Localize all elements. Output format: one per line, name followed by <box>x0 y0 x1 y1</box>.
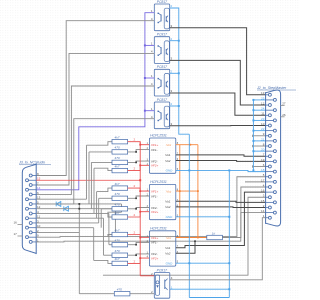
wire g2r2 row <box>99 197 112 199</box>
J3 pin 4 <box>29 212 32 215</box>
wire opto pin2 stub <box>170 105 179 107</box>
resistor 470 <box>112 196 128 200</box>
wire g1r2 row <box>89 151 112 153</box>
J2 pin 15 <box>273 201 276 204</box>
svg-text:PC817: PC817 <box>157 33 167 37</box>
diode D2 <box>64 206 69 211</box>
wire red r4 to VF2+ chip 1 <box>128 165 150 170</box>
svg-text:GND: GND <box>166 169 174 173</box>
J2 pin 25 <box>273 98 276 101</box>
wire blue J2 rail <box>252 100 254 170</box>
resistor 4k7 <box>112 168 128 172</box>
wire J2 short stub <box>253 145 266 147</box>
svg-text:HCPL2531: HCPL2531 <box>150 226 167 230</box>
svg-text:21: 21 <box>261 137 265 141</box>
svg-text:Vcc: Vcc <box>166 143 172 147</box>
junction purple <box>144 110 146 112</box>
wire blue J2 pin row <box>253 150 265 152</box>
J2 pin 22 <box>273 129 276 132</box>
wire blue vertical x189 <box>188 134 190 297</box>
svg-text:VF1+: VF1+ <box>151 143 159 147</box>
J3 pin 2 <box>29 231 32 234</box>
wire OK2 cathode to J3 pin <box>36 53 154 185</box>
svg-text:16: 16 <box>13 220 17 224</box>
junction blue <box>178 105 180 107</box>
svg-text:Vo2: Vo2 <box>165 159 171 163</box>
J2 pin 19 <box>273 160 276 163</box>
svg-text:4k7: 4k7 <box>115 257 120 261</box>
J2 pin 7 <box>268 155 271 158</box>
wire riser up <box>100 209 102 228</box>
wire riser down <box>103 218 105 255</box>
wire J2 short stub <box>253 166 266 168</box>
wire blue GND row chip1 to J2 pin18 <box>176 170 266 171</box>
optocoupler OK2 PC817 <box>154 37 169 64</box>
wire blue J2 pin row <box>253 99 265 101</box>
wire J2 pin1 to OK5 collector <box>170 218 266 280</box>
svg-text:Vo1: Vo1 <box>165 246 171 250</box>
svg-text:18: 18 <box>261 168 265 172</box>
wire OK1 emitter to J2 pin <box>170 28 266 95</box>
svg-text:14: 14 <box>37 186 41 190</box>
svg-text:12: 12 <box>261 101 265 105</box>
J3 pin 5 <box>29 203 32 206</box>
wire J3 pin1 long row to J2 pin14 <box>36 213 265 242</box>
J3 pin 7 <box>29 184 32 187</box>
wire blue PC817 emitter <box>170 288 230 290</box>
wire blue GND chip3 <box>176 262 230 264</box>
junction red chip 3 <box>139 237 141 239</box>
wire U2 Vo2 to J2 pin2 <box>176 206 266 209</box>
svg-text:26: 26 <box>282 113 286 117</box>
svg-text:VF1-: VF1- <box>151 194 158 198</box>
svg-text:4k7: 4k7 <box>115 211 120 215</box>
J2 pin 23 <box>273 119 276 122</box>
wire bottom long row to J2 pin3 <box>103 197 266 275</box>
wire U1 Vo2 to J2 pin19 <box>176 160 266 163</box>
svg-text:25: 25 <box>261 96 265 100</box>
wire blue J2 pin row <box>253 130 265 132</box>
wire riser up <box>93 168 95 213</box>
junction purple <box>144 44 146 46</box>
J3 pin 1 <box>29 240 32 243</box>
svg-text:470: 470 <box>115 192 120 196</box>
J2 pin 6 <box>268 165 271 168</box>
J2 pin 9 <box>268 134 271 137</box>
wire blue rail optos pin2 <box>170 8 190 134</box>
svg-text:10: 10 <box>261 122 265 126</box>
wire red vertical rail <box>139 142 141 276</box>
svg-text:17: 17 <box>13 232 17 236</box>
wire J3 pin row 3 <box>36 222 98 224</box>
J2 pin 5 <box>268 175 271 178</box>
wire g2r1 U loop <box>97 188 112 192</box>
wire J3 pin row 10 <box>36 227 93 229</box>
IC U1 HCPL2531 <box>149 138 175 173</box>
svg-text:16: 16 <box>261 189 265 193</box>
svg-text:4k7: 4k7 <box>115 228 120 232</box>
svg-text:4k7: 4k7 <box>115 164 120 168</box>
wire g3r1 U loop <box>108 235 112 237</box>
svg-text:VF1-: VF1- <box>151 241 158 245</box>
svg-text:4k7: 4k7 <box>115 136 120 140</box>
J2 pin 8 <box>268 145 271 148</box>
wire red to bottom PC817 <box>140 275 154 277</box>
svg-text:VF1-: VF1- <box>151 148 158 152</box>
J2 shield pin 27 <box>281 105 285 107</box>
wire J3 pin9 long row to J2 pin5 <box>36 177 265 237</box>
wire orange rail B <box>197 145 199 238</box>
wire resistor P to J2 pin4 <box>222 187 265 238</box>
J2 pin 4 <box>268 186 271 189</box>
svg-text:470: 470 <box>115 156 120 160</box>
svg-text:VF1+: VF1+ <box>151 236 159 240</box>
wire r2 to VF1- chip 3 <box>128 242 150 244</box>
wire orange Vcc chip2 <box>176 190 198 192</box>
wire J3 pin row 12 <box>36 208 115 210</box>
resistor 470 <box>112 243 128 247</box>
junction red chip 1 <box>139 144 141 146</box>
J2 shield pin 26 <box>281 116 285 118</box>
resistor 4k7 <box>112 261 128 265</box>
J2 pin 10 <box>268 124 271 127</box>
svg-text:4k7: 4k7 <box>115 182 120 186</box>
J3 pin 8 <box>29 174 32 177</box>
svg-text:470: 470 <box>115 239 120 243</box>
IC U3 HCPL2531 <box>149 231 175 266</box>
wire OK4 emitter to J2 pin <box>170 125 266 127</box>
J3 pin 14 <box>26 188 29 191</box>
svg-text:470: 470 <box>117 288 122 292</box>
wire OK5 to 470 <box>130 293 154 295</box>
wire red r1 to VF1+ chip 1 <box>128 142 150 145</box>
J3 pin 6 <box>29 193 32 196</box>
wire blue bottom jog <box>189 297 229 299</box>
svg-text:Vo1: Vo1 <box>165 153 171 157</box>
wire purple stub <box>145 110 154 112</box>
junction orange <box>189 144 191 146</box>
wire red J3 pin15 <box>36 179 140 181</box>
svg-text:20: 20 <box>261 148 265 152</box>
wire OK4 cathode to J3 pin <box>36 119 154 204</box>
wire r3 to VF2- chip 1 <box>128 161 150 162</box>
wire OK3 emitter to J2 pin <box>170 93 266 115</box>
J3 pin 11 <box>26 217 29 220</box>
wire g2r4 U loop <box>108 212 122 217</box>
wire purple stub <box>145 44 154 46</box>
wire orange rail A <box>179 145 181 238</box>
J2 pin 18 <box>273 170 276 173</box>
J2 pin 20 <box>273 150 276 153</box>
svg-text:HCPL2531: HCPL2531 <box>150 180 167 184</box>
J2 pin 1 <box>268 216 271 219</box>
J2 pin 3 <box>268 196 271 199</box>
svg-text:470: 470 <box>115 146 120 150</box>
J2 pin 2 <box>268 206 271 209</box>
wire U3 Vo1 to J2 pin16 <box>176 192 266 248</box>
wire U1 Vo1 to J2 pin7 <box>176 155 266 156</box>
J3 pin 3 <box>29 221 32 224</box>
wire 470 left lead <box>79 293 114 295</box>
wire red r1 to VF1+ chip 3 <box>128 235 150 238</box>
wire J3 pin row 4 <box>36 212 109 214</box>
svg-text:14: 14 <box>261 209 265 213</box>
wire g2r3 row <box>101 208 112 210</box>
wire opto pin2 stub <box>170 40 179 42</box>
resistor 470 <box>114 292 130 296</box>
J3 shield pin 16 <box>18 224 23 226</box>
J3 pin 10 <box>26 226 29 229</box>
svg-text:15: 15 <box>261 199 265 203</box>
svg-text:VF2+: VF2+ <box>151 210 159 214</box>
J3 pin 15 <box>26 179 29 182</box>
wire purple net opto anodes to J3 pin 14 <box>36 13 154 190</box>
resistor 470 <box>112 150 128 154</box>
wire OK3 cathode to J3 pin <box>36 86 154 194</box>
svg-text:Vo1: Vo1 <box>165 200 171 204</box>
wire riser up <box>88 152 90 204</box>
J2 pin 21 <box>273 139 276 142</box>
resistor 470 <box>112 160 128 164</box>
svg-text:VF1+: VF1+ <box>151 189 159 193</box>
svg-text:GND: GND <box>166 215 174 219</box>
svg-text:22: 22 <box>261 127 265 131</box>
wire purple stub <box>145 77 154 79</box>
J3 pin 12 <box>26 207 29 210</box>
wire r2 to VF1- chip 1 <box>128 150 150 152</box>
connector J3 shell <box>22 164 36 253</box>
wire red r4 to VF2+ chip 2 <box>128 212 150 217</box>
svg-text:Vo2: Vo2 <box>165 205 171 209</box>
wire J2 pin17 stub <box>245 181 266 183</box>
svg-text:470: 470 <box>115 249 120 253</box>
wire blue vertical x229 <box>228 170 230 297</box>
wire J3 pin row 11 <box>36 217 103 219</box>
svg-text:Vcc: Vcc <box>166 189 172 193</box>
wire blue J2 pin row <box>253 119 265 121</box>
wire riser up <box>96 192 98 219</box>
wire J3 pin row 5 <box>36 203 121 205</box>
wire red r4 to VF2+ chip 3 <box>128 258 150 263</box>
wire J3 pin row 2 <box>36 231 79 233</box>
wire orange Vcc chip3 to resistor P <box>176 237 207 239</box>
wire g3r4 U loop <box>94 260 112 263</box>
svg-text:17: 17 <box>261 178 265 182</box>
wire riser up <box>90 162 92 208</box>
svg-text:1k: 1k <box>212 231 216 235</box>
svg-text:HCPL2531: HCPL2531 <box>150 134 167 138</box>
svg-text:Vcc: Vcc <box>166 236 172 240</box>
J2 pin 11 <box>268 114 271 117</box>
J3 pin 9 <box>26 236 29 239</box>
junction red <box>139 179 141 181</box>
resistor 4k7 <box>112 140 128 144</box>
resistor 470 <box>112 253 128 257</box>
wire r3 to VF2- chip 2 <box>128 208 150 209</box>
wire blue GND chip2 <box>176 216 230 218</box>
svg-text:J3_to_NCStudio: J3_to_NCStudio <box>18 160 45 164</box>
wire OK1 cathode to J3 pin <box>36 21 154 176</box>
resistor 4k7 <box>112 232 128 236</box>
resistor 470 <box>112 207 128 211</box>
wire riser down <box>121 204 123 212</box>
wire blue J2 pin row <box>253 109 265 111</box>
wire riser down <box>93 228 95 261</box>
junction blue <box>188 169 190 171</box>
junction red chip 2 <box>139 190 141 192</box>
svg-text:J2_to_StepMaster: J2_to_StepMaster <box>256 86 287 90</box>
wire OK2 emitter to J2 pin <box>170 60 266 105</box>
wire J2 short stub <box>253 135 266 137</box>
resistor 4k7 <box>112 215 128 219</box>
svg-text:VF2+: VF2+ <box>151 164 159 168</box>
junction purple <box>144 77 146 79</box>
wire blue J2 pin row <box>253 140 265 142</box>
wire r3 to VF2- chip 3 <box>128 254 150 255</box>
wire riser up <box>86 145 88 199</box>
resistor 4k7 <box>112 186 128 190</box>
svg-text:19: 19 <box>261 158 265 162</box>
wire riser down <box>114 209 116 237</box>
diode D1 <box>56 202 61 207</box>
J2 pin 14 <box>273 211 276 214</box>
resistor 1k <box>207 235 223 239</box>
J2 pin 24 <box>273 109 276 112</box>
junction blue <box>178 72 180 74</box>
svg-text:23: 23 <box>261 117 265 121</box>
wire red r1 to VF1+ chip 2 <box>128 188 150 191</box>
wire r2 to VF1- chip 2 <box>128 196 150 198</box>
wire orange Vcc chip1 <box>176 144 198 146</box>
svg-text:PC817: PC817 <box>157 268 167 272</box>
J2 pin 13 <box>268 93 271 96</box>
wire g1r1 U loop <box>87 142 113 146</box>
wire U2 Vo1 to J2 pin15 <box>176 201 266 202</box>
svg-text:27: 27 <box>282 102 286 106</box>
J2 pin 16 <box>273 191 276 194</box>
svg-text:PC817: PC817 <box>157 0 167 4</box>
svg-text:GND: GND <box>166 261 174 265</box>
svg-text:24: 24 <box>261 107 265 111</box>
wire U3 Vo2 joins pin1 row <box>176 241 195 253</box>
wire g1r4 U loop <box>94 168 112 170</box>
svg-text:470: 470 <box>115 203 120 207</box>
J3 shield pin 17 <box>18 235 23 237</box>
J2 pin 17 <box>273 180 276 183</box>
wire g1r3 row <box>91 161 112 163</box>
wire riser up <box>98 198 100 223</box>
J2 pin 12 <box>268 104 271 107</box>
optocoupler OK5 PC817 <box>154 273 170 299</box>
svg-text:PC817: PC817 <box>157 98 167 102</box>
J3 pin 13 <box>26 198 29 201</box>
optocoupler OK3 PC817 <box>154 69 169 96</box>
connector J2 shell <box>266 90 281 226</box>
wire riser diode rows to bottom 470 <box>78 204 80 294</box>
wire opto pin2 stub <box>170 72 179 74</box>
svg-text:13: 13 <box>261 91 265 95</box>
wire J3 pin row 13 <box>36 198 86 200</box>
svg-text:VF2+: VF2+ <box>151 256 159 260</box>
IC U2 HCPL2531 <box>149 184 175 219</box>
wire g3r3 row <box>104 254 113 256</box>
wire riser down <box>108 213 110 244</box>
svg-text:PC817: PC817 <box>157 65 167 69</box>
optocoupler OK1 PC817 <box>154 4 169 31</box>
junction dots on diode rows <box>78 203 80 205</box>
wire g3r2 row <box>109 244 112 246</box>
svg-text:Vo2: Vo2 <box>165 252 171 256</box>
svg-text:11: 11 <box>261 112 264 116</box>
junction blue <box>178 40 180 42</box>
optocoupler OK4 PC817 <box>154 102 169 129</box>
